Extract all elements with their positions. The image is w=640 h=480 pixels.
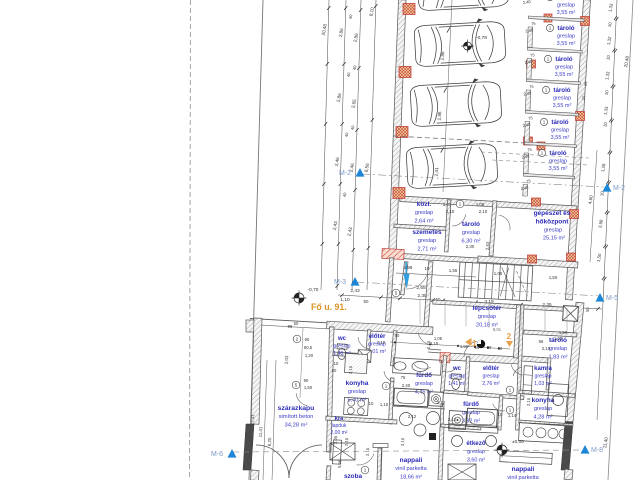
left dim chain 3 tick (357, 66, 360, 70)
svg-text:M-2: M-2 (613, 185, 625, 192)
orange marker 2 (506, 331, 513, 347)
chair etkezo b (486, 436, 497, 447)
svg-text:tároló: tároló (555, 56, 572, 63)
svg-text:nappali: nappali (400, 457, 423, 464)
room label kamra1 (331, 416, 348, 436)
left dim chain 1 (321, 0, 329, 290)
stall partition wall 1 (528, 16, 584, 22)
svg-text:2,41: 2,41 (434, 167, 439, 177)
left dim chain 4 (367, 0, 376, 290)
svg-text:M-5: M-5 (606, 295, 618, 302)
shower furdo2 spiral (449, 411, 467, 430)
svg-text:tároló: tároló (557, 25, 574, 32)
rooms south wall (393, 253, 478, 263)
svg-text:greslap: greslap (534, 406, 552, 412)
stall front wall segment 3 (526, 90, 531, 111)
entrance mid wall (401, 262, 408, 295)
stall circled num 4 (542, 86, 549, 93)
left dim chain 2 tick (342, 62, 345, 66)
circled num 2 szarazkapu (293, 335, 301, 343)
entrance arrow (404, 262, 410, 289)
column east P7 (570, 210, 579, 219)
svg-text:2,00 m²: 2,00 m² (331, 430, 348, 436)
room label tarolo stall 3 (555, 56, 574, 78)
left dim chain 4 tick (371, 118, 374, 122)
svg-text:előtér: előtér (483, 366, 500, 372)
apt top dim tick (498, 347, 500, 349)
room label tarolo stall 5 (551, 119, 570, 141)
svg-text:2,10: 2,10 (400, 437, 405, 446)
column east P6 (576, 112, 585, 121)
section line M-2 (362, 174, 604, 187)
section line M-6/M-8 (233, 450, 582, 452)
szarazkapu door arc (296, 393, 308, 406)
car 4 (406, 140, 499, 193)
svg-text:2,10: 2,10 (344, 437, 349, 446)
svg-text:étkező: étkező (466, 440, 485, 447)
kamra cupboard row (523, 366, 533, 394)
section square etkezo (429, 433, 436, 440)
room label tarolo stall 4 (553, 87, 572, 109)
svg-text:60: 60 (332, 368, 337, 373)
wall v1 szarazkapu/apt1 (327, 327, 334, 452)
level dot symbol (477, 340, 485, 348)
parking center tick (447, 27, 450, 32)
svg-text:greslap: greslap (551, 128, 569, 134)
svg-text:1,55: 1,55 (449, 268, 458, 273)
svg-text:M-2: M-2 (339, 170, 351, 177)
svg-text:greslap: greslap (557, 3, 575, 9)
svg-text:1,10: 1,10 (380, 402, 389, 407)
car 1 (top, cut) (417, 0, 510, 14)
apartment west wall solid (243, 424, 254, 470)
stall circled num 5 (540, 118, 547, 125)
room label furdo1 (415, 372, 433, 395)
shaft box eloter1 (358, 350, 372, 363)
garage south wall (rooms divider) (400, 196, 577, 211)
svg-text:2,10: 2,10 (348, 365, 353, 374)
svg-text:2,16: 2,16 (430, 341, 439, 346)
svg-text:75: 75 (401, 375, 406, 380)
circled num 1 furdo1 door (382, 382, 390, 390)
wall h9 konyha2 line (519, 420, 573, 426)
stall partition wall 5 (525, 142, 577, 147)
svg-text:5,56: 5,56 (337, 459, 342, 468)
room label nappali1 (395, 457, 427, 480)
right dim tick a (608, 150, 611, 154)
right dim tick b (603, 277, 606, 281)
door arc lepcsoter south (464, 341, 477, 357)
facade pier west (246, 320, 256, 332)
nappali west wall top piece (373, 444, 388, 448)
marker M-8 right triangle (581, 445, 590, 454)
room label tarolo 6,30 (462, 221, 481, 244)
svg-text:86: 86 (288, 324, 293, 329)
right dim chain inner 4,60 (590, 150, 597, 262)
kitchen2 stove (519, 423, 572, 444)
gepeszet south wall (478, 256, 578, 268)
toilet wc1 (337, 344, 348, 360)
svg-text:18,66 m²: 18,66 m² (400, 474, 422, 480)
room label szemetes (412, 229, 442, 252)
wall v3 lower (389, 378, 394, 424)
stall front wall segment 1 (528, 27, 533, 48)
right dim tick b (612, 85, 615, 89)
svg-text:vinil parketta: vinil parketta (507, 475, 539, 480)
svg-text:kamra: kamra (534, 366, 552, 372)
column gepeszet SW (528, 255, 537, 263)
nappali west wall (377, 448, 382, 480)
right dim tick b (607, 211, 610, 215)
left dim chain 2 tick (336, 284, 339, 288)
corridor dim tick (340, 293, 344, 297)
entrance east wall (424, 262, 433, 330)
facade dim extension x567 (566, 308, 568, 332)
corridor dim tick (569, 306, 573, 310)
level symbol nappali2 (495, 443, 510, 458)
svg-text:2,53: 2,53 (485, 241, 490, 250)
room label lepcsoter (473, 305, 502, 328)
stall partition wall 6 (524, 174, 575, 179)
parking dashed separator (393, 136, 545, 144)
svg-text:2,30: 2,30 (466, 244, 475, 249)
svg-text:greslap: greslap (482, 373, 499, 379)
svg-text:greslap: greslap (555, 65, 573, 71)
left dim chain 2 (337, 0, 346, 290)
marker M-3 left triangle (351, 277, 360, 286)
svg-text:3,12: 3,12 (448, 417, 457, 422)
apt top dim line (390, 342, 510, 349)
right dim tick a (612, 48, 615, 52)
wall v5 wc2/east (465, 357, 470, 392)
apt top dim tick (429, 343, 431, 345)
bathtub furdo2 (467, 408, 498, 428)
wall etkezo west (438, 427, 444, 480)
stall partition wall 4 (526, 111, 579, 117)
svg-text:2,10: 2,10 (426, 340, 431, 349)
svg-text:17,41: 17,41 (250, 414, 256, 425)
tarolo 1,83 north wall (524, 330, 577, 337)
entrance west wall (386, 258, 394, 322)
svg-text:nappali: nappali (512, 466, 535, 473)
svg-text:simított beton: simított beton (279, 414, 314, 420)
room label tarolo 1,83 (549, 337, 568, 360)
entrance door arc (406, 275, 426, 289)
svg-text:1,50: 1,50 (559, 330, 568, 335)
stall partition wall 2 (528, 48, 583, 54)
svg-text:-0,78: -0,78 (476, 35, 487, 41)
svg-text:3,55 m²: 3,55 m² (549, 166, 568, 172)
svg-text:M-8: M-8 (591, 447, 603, 454)
svg-text:3,55 m²: 3,55 m² (557, 41, 576, 47)
svg-text:2,76 m²: 2,76 m² (482, 381, 500, 387)
crossed table szoba (330, 443, 355, 460)
svg-text:greslap: greslap (418, 238, 436, 244)
svg-text:greslap: greslap (557, 34, 575, 40)
room label kozl (415, 201, 434, 224)
wall h7 kamra bottom (519, 390, 575, 397)
room label eloter1 (368, 333, 386, 355)
svg-text:1,20: 1,20 (305, 353, 314, 358)
svg-text:1,05: 1,05 (443, 202, 452, 207)
car 3 (410, 78, 503, 131)
svg-text:Fő u. 91.: Fő u. 91. (311, 302, 347, 312)
svg-text:96: 96 (539, 339, 544, 344)
svg-text:vinil parketta: vinil parketta (395, 466, 427, 472)
apt top dim tick (457, 345, 459, 347)
svg-text:2,10: 2,10 (542, 346, 551, 351)
door arc kamra2 (513, 367, 522, 376)
garage west wall (389, 0, 406, 258)
left dim chain 2 tick (341, 122, 344, 126)
lift shaft crossed box (563, 306, 579, 322)
orange marker 1 (465, 338, 477, 348)
kamra/east facade wall (521, 356, 549, 363)
svg-text:-0,70: -0,70 (308, 287, 319, 293)
wall h8 etkezo top (441, 424, 481, 430)
right dim tick b (616, 17, 619, 21)
shower furdo1 spiral (429, 392, 444, 407)
circled num kozl door (456, 200, 464, 208)
svg-text:greslap: greslap (478, 314, 496, 320)
right dim tick a (611, 84, 614, 88)
column east P5 (581, 17, 590, 26)
left dim chain 3 tick (359, 8, 362, 12)
circled num 5b (292, 381, 300, 389)
corridor dim tick (441, 299, 445, 303)
right dim tick a (605, 210, 608, 214)
wall v2 wc/eloter (366, 330, 371, 362)
room label konyha2 (532, 397, 555, 420)
north/level symbol street (292, 291, 307, 306)
svg-text:greslap: greslap (534, 373, 551, 379)
column gepeszet SE (567, 253, 576, 261)
svg-text:szárazkapu: szárazkapu (278, 405, 315, 412)
svg-text:60: 60 (305, 337, 310, 342)
gate arc west (256, 445, 289, 478)
svg-text:2,10: 2,10 (365, 447, 370, 456)
apt top dim tick (474, 346, 476, 348)
svg-text:wc: wc (337, 336, 347, 342)
lepcsoter parapet line b (428, 352, 441, 353)
room label tarolo stall 6 (549, 150, 568, 172)
svg-text:3,60 m²: 3,60 m² (467, 457, 485, 463)
corridor dim tick (431, 298, 435, 302)
marker M-2 right triangle (603, 183, 612, 192)
wall v7 kamra west (516, 305, 524, 430)
room label furdo2 (462, 401, 480, 424)
svg-text:2,64 m²: 2,64 m² (415, 218, 434, 224)
bottomleft dim line b (272, 360, 276, 480)
svg-text:11,41: 11,41 (258, 426, 264, 437)
room label etkezo (466, 440, 485, 463)
door arc apt1 entry (418, 333, 432, 345)
facade dim extension x420 (419, 300, 421, 324)
door arc gepeszet (499, 215, 510, 230)
left dim chain 1 tick (327, 6, 330, 10)
right dim tick a (602, 276, 605, 280)
stall front wall segment 4 (525, 122, 530, 143)
svg-text:2,71 m²: 2,71 m² (418, 246, 437, 252)
apt top dim tick (487, 347, 489, 349)
svg-text:3,55 m²: 3,55 m² (553, 103, 572, 109)
bottomleft dim line a (263, 360, 267, 480)
parking center tick (444, 87, 447, 92)
svg-text:25,15 m²: 25,15 m² (543, 236, 565, 242)
door arc wc2 (442, 369, 456, 373)
wardrobe szoba (332, 440, 341, 464)
gepeszet dashed line a (481, 152, 589, 158)
left dim chain 3 tick (353, 188, 356, 192)
wall v6 furdo2 east (498, 396, 503, 430)
apt top dim tick (394, 341, 396, 343)
washer circle a (400, 413, 413, 426)
stall front wall segment 6 (523, 185, 528, 197)
svg-text:2,05: 2,05 (333, 435, 338, 444)
column stall partition B (537, 142, 545, 150)
corridor dim tick (519, 303, 523, 307)
svg-text:M-6: M-6 (211, 451, 223, 458)
level marker -0,78 symbol (461, 40, 474, 53)
kitchen1 counter (345, 353, 368, 373)
column west P3 (396, 127, 408, 138)
left dim chain 4 tick (374, 4, 377, 8)
apartment east wall upper (565, 302, 584, 422)
door arc furdo1 (414, 364, 431, 369)
chair etkezo a (452, 436, 463, 447)
couch nappali2 (500, 451, 553, 465)
column stall line A (527, 60, 536, 68)
apartment east wall solid (561, 422, 573, 470)
circled num 5 entrance (392, 289, 400, 297)
svg-text:greslap: greslap (553, 96, 571, 102)
site boundary dashed line (190, 0, 191, 480)
svg-text:wc: wc (452, 366, 462, 372)
right dim chain upper (603, 0, 617, 302)
room label tarolo stall 2 (557, 25, 576, 47)
svg-text:34,28 m²: 34,28 m² (285, 422, 308, 428)
svg-text:greslap: greslap (544, 228, 562, 234)
sideboard etkezo (449, 424, 498, 434)
svg-text:kra: kra (335, 416, 344, 422)
svg-text:2,10: 2,10 (526, 397, 531, 406)
svg-text:1,50: 1,50 (304, 385, 313, 390)
svg-text:greslap: greslap (462, 230, 480, 236)
szarazkapu gate line bottom (250, 325, 327, 329)
corridor dim tick (398, 297, 402, 301)
wall v8 kamra east (546, 358, 551, 390)
right dim tick b (605, 245, 608, 249)
svg-text:szoba: szoba (344, 473, 363, 480)
svg-text:fürdő: fürdő (416, 372, 432, 379)
apartment facade wall west section (327, 321, 433, 334)
right dim tick a (614, 16, 617, 20)
lepcsoter north wall (433, 300, 578, 312)
crossed table etkezo (448, 464, 476, 480)
room label konyha1 (346, 380, 369, 403)
svg-text:90: 90 (395, 333, 400, 338)
svg-text:greslap: greslap (549, 346, 567, 352)
left dim chain 4 tick (367, 246, 370, 250)
svg-text:60,5: 60,5 (304, 345, 313, 350)
svg-text:3,55 m²: 3,55 m² (557, 10, 576, 16)
column west P4 (393, 188, 405, 199)
left dim chain 2 tick (339, 182, 342, 186)
left dim chain 3 tick (352, 248, 355, 252)
apartment east wall below dark (564, 469, 573, 480)
column gepeszet NW (532, 198, 541, 206)
szarazkapu gate line top (250, 319, 327, 323)
gate arc east (289, 445, 322, 478)
left dim chain 1 tick (326, 62, 329, 66)
facade dim extension x466 (465, 303, 467, 327)
washbasin furdo1 (412, 361, 429, 372)
washbasin furdo1 b (394, 361, 406, 370)
stall circled num 3 (544, 55, 551, 62)
svg-text:tároló: tároló (557, 0, 574, 1)
circled num 1 szoba door (361, 466, 369, 474)
wall h5 konyha bottom (326, 416, 397, 424)
svg-text:tároló: tároló (553, 87, 570, 94)
svg-text:lapduk: lapduk (332, 423, 347, 429)
left dim chain 3 (352, 0, 361, 290)
stall front wall segment 2 (527, 59, 532, 80)
marker M-2 left triangle (356, 168, 365, 177)
lepcsoter parapet line a (428, 349, 441, 350)
circled num 1 kamra wall a (506, 386, 514, 394)
svg-text:10: 10 (498, 412, 503, 417)
kitchen2 counter east (547, 383, 569, 416)
svg-text:M-3: M-3 (334, 279, 346, 286)
svg-text:1,50: 1,50 (549, 275, 558, 280)
left dim chain 1 tick (321, 242, 324, 246)
svg-text:10: 10 (425, 266, 430, 271)
parking center line (443, 0, 452, 192)
svg-text:6,20: 6,20 (267, 437, 272, 446)
door arc tarolo 6,30 (452, 214, 466, 226)
apartment west wall hatched (251, 318, 262, 424)
left dim chain 2 tick (344, 6, 347, 10)
kitchen1 stove (344, 397, 369, 415)
lot boundary line west (249, 0, 263, 480)
section line M-3/M-5 (356, 282, 600, 296)
left dim chain 3 tick (355, 128, 358, 132)
room label nappali2 (507, 466, 539, 480)
svg-text:3,55 m²: 3,55 m² (551, 135, 570, 141)
bathtub furdo1 (394, 388, 429, 407)
svg-text:10: 10 (334, 361, 339, 366)
circled num 1 kamra wall b (506, 406, 514, 414)
stall circled num 1 (546, 0, 553, 1)
door arc szoba (357, 454, 375, 465)
dim line corridor bottom (338, 295, 602, 309)
svg-text:±0,00: ±0,00 (512, 439, 524, 445)
garage east wall (566, 0, 591, 300)
svg-text:greslap: greslap (415, 210, 433, 216)
svg-text:gépészet és: gépészet és (534, 210, 571, 217)
svg-text:2,03: 2,03 (284, 355, 289, 364)
room label szarazkapu (278, 405, 315, 428)
svg-text:hőközpont: hőközpont (536, 219, 570, 226)
svg-text:50: 50 (364, 299, 369, 304)
column stall line B (524, 137, 533, 145)
dim line corridor top (396, 273, 476, 277)
left dim chain 1 tick (324, 122, 327, 126)
staircase steps (458, 262, 533, 301)
column west P1 (403, 4, 415, 15)
red hatched wall at entrance (382, 248, 404, 259)
svg-text:2,30: 2,30 (417, 293, 427, 299)
